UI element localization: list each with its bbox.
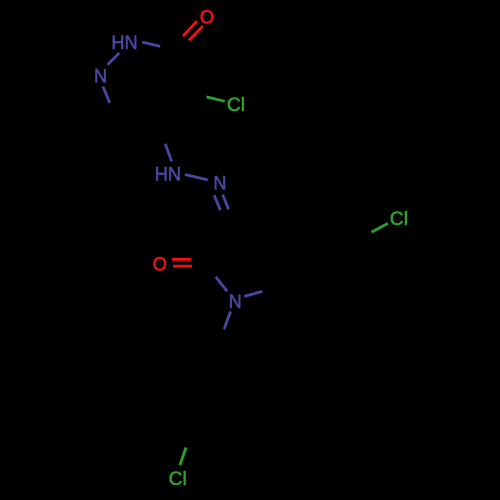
wire N=C3' double bond line 2: [223, 195, 229, 210]
wire N2-C3 half (pyridazinone): [142, 42, 160, 46]
wire N=C3' double bond line 1: [214, 195, 220, 210]
wire N1'-C7a half: [244, 291, 262, 296]
wire C-Cl half (indole 5-Cl): [372, 223, 389, 232]
wire N1'-phenyl half: [224, 312, 230, 330]
wire C5-NH half: [165, 144, 171, 162]
wire C2-N1' half: [216, 277, 227, 291]
svg-text:N: N: [94, 65, 107, 87]
wire C2=O double bond line 1: [172, 258, 191, 261]
svg-text:O: O: [153, 253, 167, 275]
svg-text:Cl: Cl: [169, 468, 187, 490]
wire C2=O double bond line 2: [173, 265, 192, 268]
wire C3=O double bond line 2: [189, 26, 203, 40]
svg-text:N: N: [229, 291, 242, 313]
svg-text:Cl: Cl: [227, 94, 245, 116]
wire C-Cl half (phenyl 4-Cl): [180, 447, 186, 465]
wire N1-C6 half: [103, 87, 110, 103]
wire N2-N1 bond: [108, 53, 120, 65]
wire C4-Cl half: [207, 97, 225, 102]
wire C3=O double bond line 1: [183, 21, 197, 36]
svg-text:HN: HN: [155, 163, 181, 185]
svg-text:Cl: Cl: [390, 208, 408, 230]
svg-text:N: N: [213, 172, 226, 194]
wire NH-N bond: [185, 175, 208, 180]
svg-text:O: O: [200, 6, 214, 28]
svg-text:HN: HN: [111, 32, 137, 54]
